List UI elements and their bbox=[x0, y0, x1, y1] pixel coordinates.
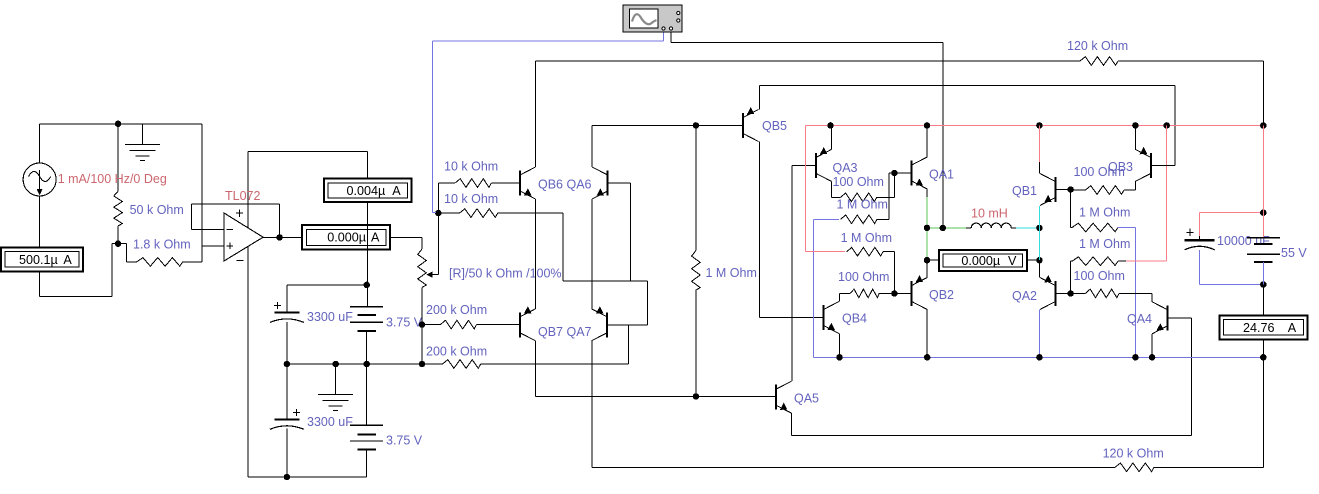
svg-text:QA5: QA5 bbox=[794, 392, 819, 406]
svg-text:QA2: QA2 bbox=[1012, 289, 1037, 303]
svg-text:24.76: 24.76 bbox=[1243, 321, 1275, 335]
svg-text:QB2: QB2 bbox=[929, 288, 954, 302]
svg-text:3300 uF: 3300 uF bbox=[307, 310, 353, 324]
svg-text:QB7 QA7: QB7 QA7 bbox=[538, 325, 592, 339]
svg-text:55 V: 55 V bbox=[1281, 246, 1307, 260]
svg-text:0.000µ: 0.000µ bbox=[961, 254, 1000, 268]
svg-text:10 k Ohm: 10 k Ohm bbox=[444, 160, 498, 174]
svg-text:1 M Ohm: 1 M Ohm bbox=[1079, 206, 1130, 220]
svg-text:A: A bbox=[1288, 321, 1297, 335]
svg-text:1 M Ohm: 1 M Ohm bbox=[837, 198, 888, 212]
svg-text:10 k Ohm: 10 k Ohm bbox=[444, 192, 498, 206]
svg-text:QA3: QA3 bbox=[833, 161, 858, 175]
svg-text:0.000µ: 0.000µ bbox=[327, 231, 366, 245]
svg-text:3.75 V: 3.75 V bbox=[386, 316, 423, 330]
svg-text:500.1µ: 500.1µ bbox=[19, 253, 58, 267]
svg-text:[R]/50 k Ohm /100%: [R]/50 k Ohm /100% bbox=[449, 267, 562, 281]
svg-text:QA4: QA4 bbox=[1127, 312, 1152, 326]
svg-text:200 k Ohm: 200 k Ohm bbox=[426, 345, 487, 359]
svg-text:QB3: QB3 bbox=[1108, 160, 1133, 174]
svg-text:50 k Ohm: 50 k Ohm bbox=[130, 203, 184, 217]
svg-text:1.8 k Ohm: 1.8 k Ohm bbox=[133, 238, 191, 252]
svg-text:10 mH: 10 mH bbox=[971, 207, 1008, 221]
svg-text:1 M Ohm: 1 M Ohm bbox=[706, 266, 757, 280]
svg-text:1 M Ohm: 1 M Ohm bbox=[841, 231, 892, 245]
svg-text:120 k Ohm: 120 k Ohm bbox=[1103, 447, 1164, 461]
svg-text:3300 uF: 3300 uF bbox=[307, 415, 353, 429]
svg-text:A: A bbox=[392, 184, 401, 198]
svg-text:0.004µ: 0.004µ bbox=[347, 184, 386, 198]
svg-text:100 Ohm: 100 Ohm bbox=[1074, 269, 1125, 283]
svg-text:1 mA/100 Hz/0 Deg: 1 mA/100 Hz/0 Deg bbox=[58, 172, 167, 186]
svg-text:100 Ohm: 100 Ohm bbox=[838, 270, 889, 284]
svg-text:A: A bbox=[63, 253, 72, 267]
svg-text:100 Ohm: 100 Ohm bbox=[833, 175, 884, 189]
svg-text:200 k Ohm: 200 k Ohm bbox=[426, 303, 487, 317]
svg-text:QB4: QB4 bbox=[842, 312, 867, 326]
svg-text:A: A bbox=[371, 231, 380, 245]
svg-text:QB6 QA6: QB6 QA6 bbox=[538, 178, 592, 192]
svg-text:QB5: QB5 bbox=[762, 119, 787, 133]
svg-text:120 k Ohm: 120 k Ohm bbox=[1067, 39, 1128, 53]
svg-text:3.75 V: 3.75 V bbox=[386, 434, 423, 448]
svg-text:1 M Ohm: 1 M Ohm bbox=[1079, 237, 1130, 251]
svg-text:QB1: QB1 bbox=[1012, 184, 1037, 198]
svg-text:QA1: QA1 bbox=[929, 168, 954, 182]
svg-text:10000 uF: 10000 uF bbox=[1217, 234, 1270, 248]
svg-text:TL072: TL072 bbox=[225, 189, 260, 203]
svg-text:V: V bbox=[1008, 254, 1017, 268]
